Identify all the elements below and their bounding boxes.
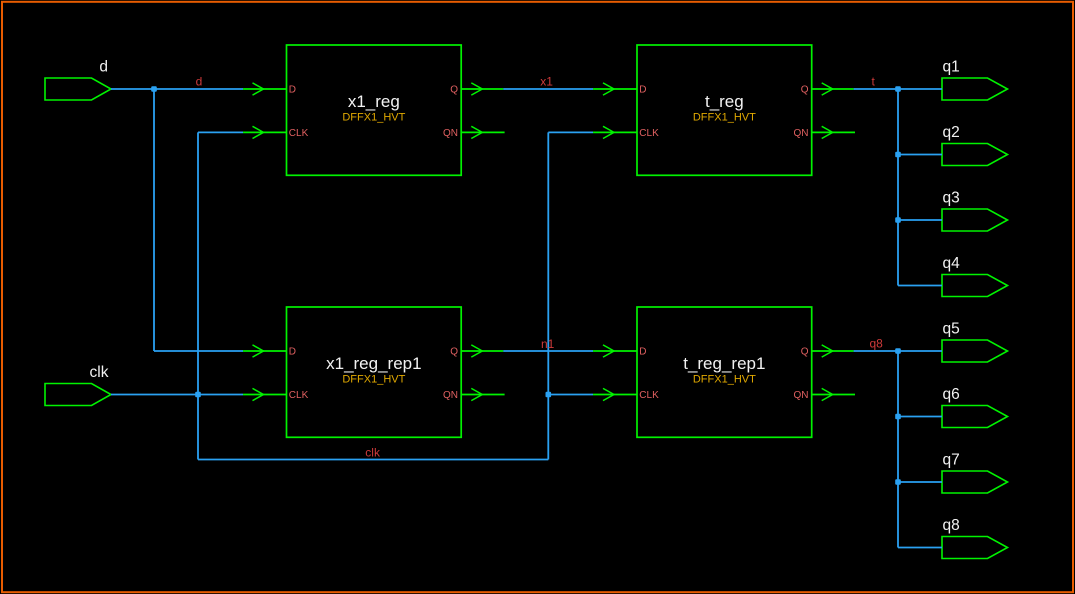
svg-text:x1_reg_rep1: x1_reg_rep1	[326, 354, 421, 373]
svg-text:QN: QN	[794, 128, 809, 139]
wire net t: stub to q2	[898, 154, 942, 156]
svg-text:D: D	[639, 347, 646, 358]
wire net clk: bottom horizontal	[198, 459, 548, 461]
svg-text:q4: q4	[943, 255, 961, 272]
wire net d: vertical branch	[153, 89, 155, 351]
svg-text:DFFX1_HVT: DFFX1_HVT	[693, 374, 756, 386]
svg-text:d: d	[196, 75, 203, 89]
svg-text:clk: clk	[365, 446, 381, 460]
svg-text:clk: clk	[90, 364, 109, 381]
junction net q8 at q7	[895, 479, 901, 485]
QN stub right block y=394.5	[812, 394, 855, 396]
svg-text:n1: n1	[541, 337, 555, 351]
svg-text:x1: x1	[540, 75, 553, 89]
svg-text:Q: Q	[450, 347, 458, 358]
wire net q8: stub to q6	[898, 416, 942, 418]
Q output lead right block y=351	[812, 350, 854, 352]
junction net q8 at q6	[895, 414, 901, 420]
Q output lead left block y=89	[461, 88, 503, 90]
output port q8	[942, 517, 1008, 559]
wire net t: vertical	[897, 89, 899, 286]
wire net t: stub to q4	[898, 285, 942, 287]
flip-flop x1_reg (DFFX1_HVT)	[287, 45, 462, 175]
wire net x1	[503, 88, 593, 90]
wire net clk: right vertical	[547, 132, 549, 459]
svg-text:q8: q8	[943, 517, 960, 534]
svg-text:CLK: CLK	[289, 390, 309, 401]
Q output lead right block y=89	[812, 88, 854, 90]
junction net t at q1	[895, 86, 901, 92]
svg-text:DFFX1_HVT: DFFX1_HVT	[342, 112, 405, 124]
wire net n1	[503, 350, 593, 352]
svg-text:q8: q8	[870, 337, 884, 351]
output port q7	[942, 452, 1008, 494]
svg-text:QN: QN	[443, 128, 458, 139]
output port q5	[942, 321, 1008, 363]
junction net clk right	[546, 392, 552, 398]
output port q6	[942, 386, 1008, 428]
junction net d	[151, 86, 157, 92]
output port q3	[942, 190, 1008, 232]
input port d	[45, 59, 111, 101]
wire net q8: Q to junction	[854, 350, 898, 352]
svg-text:QN: QN	[794, 390, 809, 401]
pin lead into right block at y=351	[593, 350, 637, 352]
wire net clk: port to x1_reg_rep1 CLK	[111, 394, 243, 396]
pin lead into right block at y=394.5	[593, 394, 637, 396]
wire net clk: to x1_reg CLK	[198, 131, 243, 133]
wire net d: port to x1_reg D	[111, 88, 243, 90]
junction net clk at port	[195, 392, 201, 398]
junction net t at q2	[895, 152, 901, 158]
QN stub left block y=394.5	[461, 394, 504, 396]
svg-text:D: D	[289, 347, 296, 358]
svg-text:Q: Q	[801, 85, 809, 96]
svg-text:q7: q7	[943, 452, 960, 469]
svg-text:x1_reg: x1_reg	[348, 92, 400, 111]
wire net q8: stub to q8	[898, 547, 942, 549]
wire net clk: left vertical	[197, 132, 199, 459]
svg-text:t_reg: t_reg	[705, 92, 744, 111]
svg-text:D: D	[289, 85, 296, 96]
QN stub left block y=132.4	[461, 131, 504, 133]
wire net t: stub to q3	[898, 219, 942, 221]
svg-text:QN: QN	[443, 390, 458, 401]
wire net clk: to t_reg_rep1 CLK	[548, 394, 593, 396]
svg-text:DFFX1_HVT: DFFX1_HVT	[342, 374, 405, 386]
wire net t: stub to q1	[898, 88, 942, 90]
svg-text:Q: Q	[450, 85, 458, 96]
svg-text:D: D	[639, 85, 646, 96]
svg-text:CLK: CLK	[639, 390, 659, 401]
svg-text:Q: Q	[801, 347, 809, 358]
pin lead into left block at y=89	[243, 88, 287, 90]
wire net d: to x1_reg_rep1 D	[154, 350, 243, 352]
output port q1	[942, 59, 1008, 101]
wire net q8: stub to q5	[898, 350, 942, 352]
svg-text:CLK: CLK	[639, 128, 659, 139]
svg-text:DFFX1_HVT: DFFX1_HVT	[693, 112, 756, 124]
output port q4	[942, 255, 1008, 297]
pin lead into left block at y=394.5	[243, 394, 287, 396]
svg-text:q5: q5	[943, 321, 960, 338]
flip-flop t_reg_rep1 (DFFX1_HVT)	[637, 307, 812, 437]
flip-flop t_reg (DFFX1_HVT)	[637, 45, 812, 175]
wire net q8: vertical	[897, 351, 899, 548]
svg-text:CLK: CLK	[289, 128, 309, 139]
output port q2	[942, 124, 1008, 166]
QN stub right block y=132.4	[812, 131, 855, 133]
input port clk	[45, 364, 111, 406]
svg-text:q1: q1	[943, 59, 960, 76]
pin lead into left block at y=132.4	[243, 131, 287, 133]
Q output lead left block y=351	[461, 350, 503, 352]
junction net t at q3	[895, 217, 901, 223]
pin lead into right block at y=89	[593, 88, 637, 90]
svg-text:q6: q6	[943, 386, 960, 403]
wire net clk: to t_reg CLK	[548, 131, 593, 133]
wire net t: Q to junction	[854, 88, 898, 90]
wire net q8: stub to q7	[898, 481, 942, 483]
pin lead into left block at y=351	[243, 350, 287, 352]
svg-text:d: d	[99, 59, 108, 76]
flip-flop x1_reg_rep1 (DFFX1_HVT)	[287, 307, 462, 437]
svg-text:t_reg_rep1: t_reg_rep1	[683, 354, 765, 373]
junction net q8 at q5	[895, 348, 901, 354]
svg-text:q3: q3	[943, 190, 960, 207]
svg-text:q2: q2	[943, 124, 960, 141]
pin lead into right block at y=132.4	[593, 131, 637, 133]
